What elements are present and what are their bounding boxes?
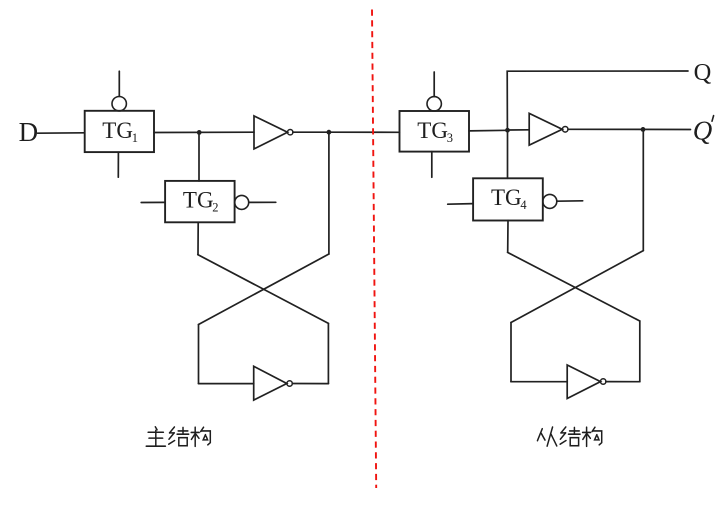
wire master cross diagonal TR-BL — [199, 254, 329, 325]
svg-text:4: 4 — [520, 198, 527, 212]
inverter U4 bubble — [601, 379, 606, 384]
wire D to TG1 — [38, 132, 85, 134]
wire node C to inverter U3 — [508, 129, 530, 131]
主 — [146, 427, 165, 446]
node C junction dot — [505, 128, 510, 133]
svg-text:2: 2 — [212, 201, 218, 215]
svg-text:TG: TG — [417, 118, 448, 143]
node Qbar output label — [693, 115, 713, 145]
svg-text:1: 1 — [132, 131, 138, 145]
svg-text:TG: TG — [102, 118, 133, 143]
wire master loop bottom right — [292, 383, 328, 385]
TG1 clock bubble — [112, 97, 126, 111]
TG3 clock bubble — [427, 97, 441, 111]
wire TG2 right clock stub — [249, 201, 276, 203]
transmission gate TG1 box — [85, 111, 154, 152]
wire TG4 left clock stub — [448, 203, 473, 206]
wire U1 output to node B — [293, 131, 329, 133]
svg-text:3: 3 — [447, 131, 453, 145]
wire TG4 right clock stub — [557, 200, 583, 202]
构 — [191, 427, 210, 446]
TG1 label — [102, 118, 138, 145]
wire TG2 bottom to cross — [197, 222, 199, 254]
结 — [560, 427, 580, 446]
wire TG1 top clock stub — [118, 71, 120, 96]
wire master loop right vertical — [327, 323, 329, 383]
node Q output label — [694, 59, 712, 86]
结 — [169, 427, 189, 446]
inverter U3 bubble — [562, 127, 568, 133]
TG2 right clock bubble — [235, 195, 249, 209]
Qbar prime tick — [712, 116, 714, 122]
wire node D2 down to slave cross — [642, 129, 644, 250]
从 — [537, 427, 556, 446]
wire node B to TG3 (crosses partition) — [329, 131, 400, 133]
wire node B down to feedback cross — [328, 132, 330, 254]
node junction at TG2 tap — [197, 130, 202, 135]
svg-text:TG: TG — [183, 187, 214, 212]
svg-text:D: D — [19, 117, 38, 147]
wire node C down to TG4 — [507, 130, 509, 178]
op-amp inverter U2 triangle (feedback) — [254, 366, 287, 400]
wire slave cross diagonal TR-BL — [511, 251, 643, 323]
wire U3 output to Qbar — [568, 128, 691, 130]
wire slave cross diagonal TL-BR — [508, 252, 640, 321]
op-amp inverter U4 triangle (feedback) — [567, 365, 600, 399]
wire TG1 bottom clock stub — [117, 152, 119, 177]
transmission gate TG2 box — [165, 181, 235, 222]
TG3 label — [417, 118, 453, 145]
op-amp inverter U1 triangle — [254, 116, 288, 149]
wire master loop bottom left — [199, 383, 254, 385]
wire slave loop bottom right — [606, 381, 640, 383]
wire TG3 bottom clock stub — [431, 152, 433, 178]
wire TG1 output to inverter U1 — [154, 131, 254, 133]
wire TG2 left clock stub — [141, 201, 165, 203]
wire TG4 bottom to cross — [507, 221, 509, 253]
inverter U1 bubble — [288, 130, 293, 135]
inverter U2 bubble — [287, 381, 292, 386]
构 — [583, 427, 602, 446]
wire master cross diagonal TL-BR — [198, 255, 329, 324]
node D input label — [19, 117, 38, 147]
svg-text:TG: TG — [491, 185, 522, 210]
wire slave loop right vertical — [639, 321, 641, 382]
wire master loop left vertical — [198, 325, 200, 384]
node B junction dot — [327, 130, 332, 135]
wire node down to TG2 top — [198, 132, 200, 181]
op-amp inverter U3 triangle — [529, 113, 562, 145]
node D2 junction dot — [641, 127, 646, 132]
svg-text:Q: Q — [693, 115, 713, 145]
wire TG3 output to node C — [469, 129, 508, 132]
label slave structure (Chinese 从结构) — [537, 427, 601, 446]
partition red dashed line — [372, 10, 376, 489]
wire TG3 top clock stub — [433, 72, 435, 97]
wire node C up and over to Q — [507, 71, 688, 130]
label master structure (Chinese 主结构) — [146, 427, 210, 447]
svg-text:Q: Q — [694, 59, 712, 86]
TG2 label — [183, 187, 219, 214]
transmission gate TG4 box — [473, 178, 543, 220]
transmission gate TG3 box — [400, 111, 470, 152]
TG4 label — [491, 185, 527, 212]
wire slave loop bottom left — [511, 381, 567, 383]
TG4 right clock bubble — [543, 194, 557, 208]
wire slave loop left vertical — [510, 323, 512, 382]
